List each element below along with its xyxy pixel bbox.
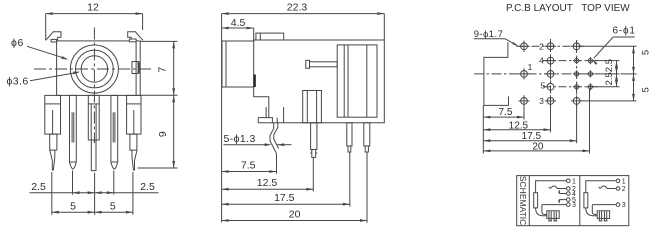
side view: left extension line xyxy=(221,14,223,223)
schematic: left terminal 5 wire with NC arrow down xyxy=(559,199,566,201)
pcb layout: pad A3 (phi1.7, hole 1) xyxy=(521,71,528,78)
side view: dimension 22.3 (total width) xyxy=(383,14,385,40)
pcb layout: pad A5 (phi1.7) xyxy=(521,98,528,105)
svg-text:5-ϕ1.3: 5-ϕ1.3 xyxy=(224,133,256,145)
svg-text:SCHEMATIC: SCHEMATIC xyxy=(518,176,528,225)
side view: dimension 4.5 (barrel length) xyxy=(253,28,255,41)
front view: dimension 2.5 row (left and right) xyxy=(30,192,159,194)
schematic: left terminal 2 wire and contact squiggle xyxy=(557,188,566,190)
svg-text:2.5: 2.5 xyxy=(604,72,615,85)
pcb layout: pad B1 (hole 2) xyxy=(547,43,554,50)
front view: left mounting ear xyxy=(46,32,61,41)
front view: pin 2 xyxy=(70,95,77,162)
schematic: right wire to terminal 1 xyxy=(586,181,616,193)
side view: right tall block (switch housing) xyxy=(337,45,377,117)
svg-text:7.5: 7.5 xyxy=(499,107,513,118)
svg-text:3: 3 xyxy=(572,202,576,209)
front view: right side clip tab xyxy=(132,62,136,74)
svg-text:20: 20 xyxy=(289,209,301,221)
front view: pin 4 xyxy=(111,95,118,162)
schematic: label cell divider xyxy=(528,176,530,226)
svg-text:12.5: 12.5 xyxy=(257,177,278,189)
schematic: left plug symbol xyxy=(536,208,547,216)
side view: pin extension lines xyxy=(276,156,278,174)
front view: right mounting ear xyxy=(128,32,143,41)
front view: right corner tab xyxy=(129,39,136,42)
pcb layout: pad B5 (hole 3) xyxy=(547,98,554,105)
schematic: left circuit sleeve contact xyxy=(534,193,538,208)
svg-text:7.5: 7.5 xyxy=(241,159,256,171)
schematic: right circuit sleeve contact xyxy=(584,193,588,208)
svg-text:5: 5 xyxy=(641,87,650,92)
pcb layout: bottom extension lines xyxy=(482,105,484,153)
pcb layout: dimension 17.5 xyxy=(483,140,576,142)
front view: vertical centerline xyxy=(93,28,95,144)
pcb layout: row centerlines xyxy=(516,45,584,47)
pcb layout: pad C5 (phi1.7) xyxy=(573,98,580,105)
front view: bushing middle circle xyxy=(76,50,114,88)
svg-text:6-ϕ1: 6-ϕ1 xyxy=(613,25,636,36)
svg-text:5: 5 xyxy=(70,201,76,213)
pcb layout: dimension 20 xyxy=(483,150,589,152)
side view: main body outline xyxy=(254,40,385,123)
svg-text:7: 7 xyxy=(156,67,168,73)
front view: hole inner circle phi3.6 xyxy=(81,56,107,82)
pcb layout: pad B3 (center) xyxy=(547,71,554,78)
svg-text:3: 3 xyxy=(622,202,626,209)
front view: jack body xyxy=(57,41,141,96)
front view: dimension 7 (body height, right) xyxy=(140,40,177,42)
svg-text:2.5: 2.5 xyxy=(604,59,615,72)
svg-text:2.5: 2.5 xyxy=(31,181,46,193)
svg-text:2: 2 xyxy=(539,41,544,51)
side view: pin 1 (clinched leg) xyxy=(270,123,277,156)
svg-text:12: 12 xyxy=(87,2,99,14)
svg-text:5: 5 xyxy=(641,50,650,55)
svg-text:22.3: 22.3 xyxy=(287,2,308,14)
front view: bushing outer circle phi6 xyxy=(70,45,118,93)
front view: dimension 9 (leg length, right) xyxy=(138,167,178,169)
svg-text:1: 1 xyxy=(572,178,576,185)
schematic: right terminal 3 wire to plug xyxy=(592,204,616,206)
svg-text:9: 9 xyxy=(157,131,169,137)
svg-text:4.5: 4.5 xyxy=(231,17,246,29)
schematic: left terminal 3 wire to plug xyxy=(542,204,567,206)
svg-text:P.C.B LAYOUT TOP VIEW: P.C.B LAYOUT TOP VIEW xyxy=(506,3,630,14)
svg-text:5: 5 xyxy=(110,201,116,213)
side view: pin 4 xyxy=(364,123,370,146)
side view: dimension 20 xyxy=(222,220,367,222)
pcb layout: pad C1 (phi1.7) xyxy=(573,43,580,50)
svg-text:ϕ3.6: ϕ3.6 xyxy=(7,76,29,88)
schematic: left terminal 4 wire with NC arrow up xyxy=(559,193,566,195)
side view: top mounting tab xyxy=(256,33,284,40)
pcb layout: dimension 7.5 xyxy=(483,116,524,118)
svg-text:17.5: 17.5 xyxy=(274,192,295,204)
svg-text:1: 1 xyxy=(622,178,626,185)
svg-text:2: 2 xyxy=(622,186,626,193)
svg-text:12.5: 12.5 xyxy=(509,121,529,132)
side view: barrel (threaded bushing) xyxy=(222,41,254,87)
svg-text:1: 1 xyxy=(528,62,533,72)
pcb layout: column centerlines xyxy=(550,39,552,108)
schematic: left wire to terminal 1 xyxy=(536,181,567,193)
svg-text:2.5: 2.5 xyxy=(140,181,155,193)
side view: dark seam tick xyxy=(253,75,255,88)
pcb layout: dimension 5 5 (far right) xyxy=(582,45,637,47)
front view: pin extension lines xyxy=(51,172,53,215)
pcb layout: pad B4 (hole 5) xyxy=(547,83,554,90)
svg-text:5: 5 xyxy=(541,81,546,91)
schematic: right terminal 1 xyxy=(616,179,620,183)
schematic: right terminal 2 wire and contact squiggle xyxy=(607,188,616,190)
pcb layout: horizontal centerline xyxy=(474,73,598,75)
pcb layout: pad B2 (hole 4) xyxy=(547,57,554,64)
side view: middle block (tip contact holder) xyxy=(303,91,322,123)
schematic: left terminal 1 xyxy=(567,179,571,183)
svg-text:4: 4 xyxy=(539,56,544,66)
side view: pin 3 xyxy=(347,123,352,146)
side view: dimension 17.5 xyxy=(222,203,350,205)
side view: left prong (contact) sticking left xyxy=(310,62,338,67)
side view: dimension 12.5 xyxy=(222,188,314,190)
pcb layout: dimension 12.5 xyxy=(483,129,550,131)
front view: leg 5 (right ground lug) xyxy=(127,95,141,134)
svg-text:3: 3 xyxy=(539,96,544,106)
front view: pin 3 (center sleeve pin) xyxy=(88,95,99,140)
front view: dimension 5 row xyxy=(52,211,133,213)
pcb layout: pad A1 (phi1.7) xyxy=(521,43,528,50)
front view: horizontal centerline xyxy=(34,68,152,70)
pcb layout: body outline (C shape) xyxy=(484,42,509,105)
front view: leg 1 (left ground lug) xyxy=(45,95,61,134)
schematic: outer box xyxy=(517,176,629,226)
pcb layout: small pads phi1 xyxy=(575,59,579,63)
schematic: right plug symbol xyxy=(586,208,597,216)
side view: pin 2 (stepped pin) xyxy=(311,123,317,150)
svg-text:ϕ6: ϕ6 xyxy=(11,37,24,49)
schematic: circuits divider xyxy=(579,176,581,226)
pcb layout: dimension 2.5 2.5 (right) xyxy=(595,60,620,62)
front view: dimension 12 (top width) xyxy=(45,14,47,41)
svg-text:20: 20 xyxy=(532,141,544,152)
side view: dimension 7.5 xyxy=(222,171,277,173)
front view: left corner tab xyxy=(51,39,57,42)
side view: left inner pin holder lines xyxy=(265,107,267,118)
